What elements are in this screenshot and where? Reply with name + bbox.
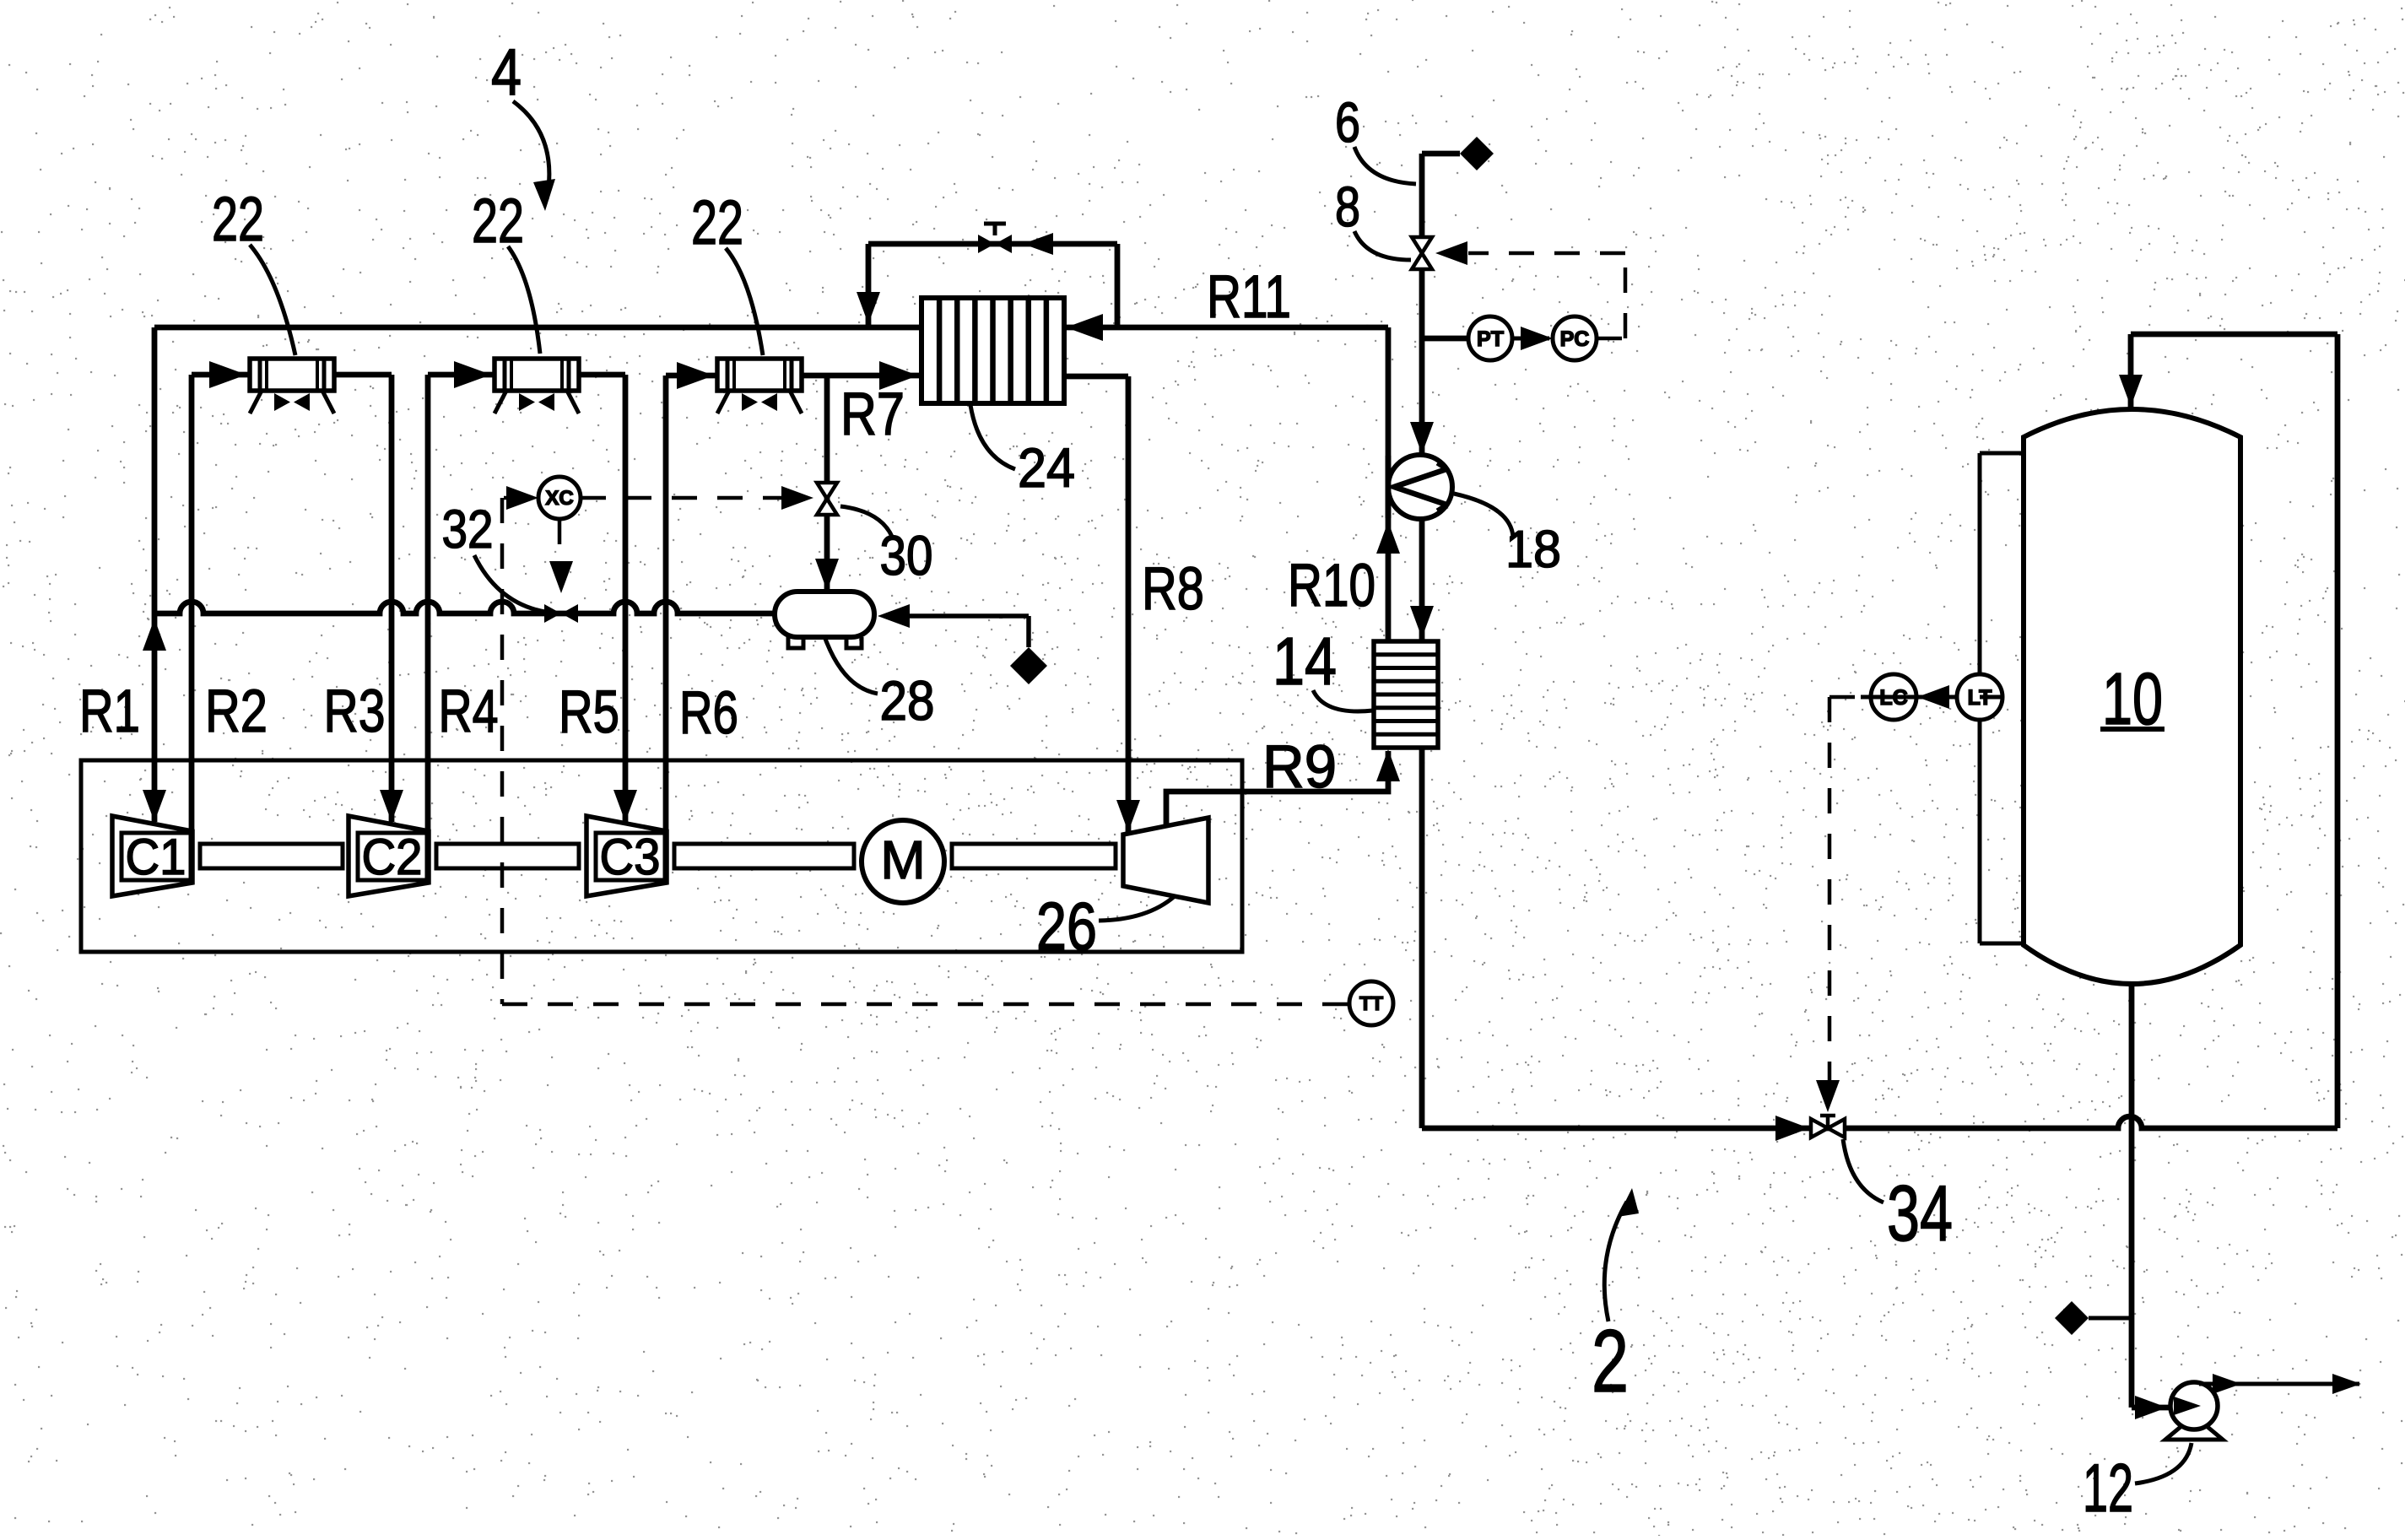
- svg-text:32: 32: [442, 499, 494, 559]
- svg-text:24: 24: [1018, 436, 1075, 499]
- svg-text:PT: PT: [1477, 327, 1504, 351]
- svg-text:R10: R10: [1288, 553, 1375, 619]
- svg-text:TT: TT: [1359, 992, 1383, 1014]
- svg-text:R7: R7: [840, 381, 905, 448]
- svg-text:R4: R4: [439, 678, 499, 745]
- svg-text:R11: R11: [1207, 264, 1291, 331]
- svg-text:4: 4: [491, 35, 522, 109]
- svg-text:6: 6: [1335, 91, 1360, 154]
- svg-text:R1: R1: [79, 678, 140, 745]
- svg-text:12: 12: [2083, 1451, 2133, 1526]
- svg-text:22: 22: [691, 187, 743, 257]
- svg-text:R6: R6: [679, 680, 738, 747]
- svg-text:18: 18: [1505, 521, 1561, 579]
- svg-text:R8: R8: [1142, 556, 1204, 623]
- svg-text:M: M: [880, 829, 925, 890]
- svg-text:R2: R2: [205, 678, 268, 745]
- svg-text:14: 14: [1273, 624, 1337, 699]
- svg-text:22: 22: [472, 186, 524, 256]
- svg-text:28: 28: [880, 669, 935, 732]
- svg-text:R9: R9: [1262, 734, 1337, 801]
- svg-text:XC: XC: [545, 487, 573, 510]
- svg-text:22: 22: [212, 184, 264, 254]
- svg-text:C1: C1: [126, 829, 186, 885]
- svg-text:PC: PC: [1560, 327, 1590, 351]
- svg-text:26: 26: [1036, 889, 1097, 964]
- svg-text:8: 8: [1335, 176, 1360, 239]
- svg-text:C3: C3: [600, 829, 661, 885]
- svg-text:30: 30: [880, 524, 933, 586]
- svg-text:R5: R5: [559, 679, 619, 746]
- svg-text:C2: C2: [362, 829, 423, 885]
- svg-text:2: 2: [1592, 1312, 1629, 1411]
- svg-text:R3: R3: [324, 678, 386, 745]
- svg-text:34: 34: [1887, 1169, 1953, 1257]
